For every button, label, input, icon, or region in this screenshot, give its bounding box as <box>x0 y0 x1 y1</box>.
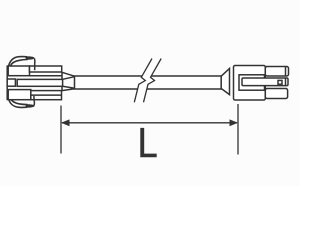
connector P2 middle blade terminal <box>242 78 288 86</box>
connector P1 body top cavity rectangle <box>8 66 29 76</box>
connector P2 cable entry taper (trapezoid) <box>221 69 229 95</box>
dimension label L <box>140 128 156 157</box>
connector P1 latch spring bottom arc tip claw <box>26 104 35 107</box>
connector P1 latch spring top arc <box>8 57 27 68</box>
cable break line (left bolt) <box>134 59 152 103</box>
connector P2 bottom tab terminal <box>265 89 287 99</box>
wire crimp wedge from P1 top terminal to cable <box>62 72 75 79</box>
connector P1 middle terminal bar <box>17 79 62 86</box>
connector P1 body bottom cavity rectangle <box>8 90 31 100</box>
wire crimp wedge from P1 bottom terminal to cable <box>62 86 75 90</box>
connector P2 housing body <box>234 66 266 101</box>
connector P1 latch catch post bottom <box>33 96 36 105</box>
connector P1 latch spring bottom arc <box>8 97 27 107</box>
dimension line with arrows <box>61 119 238 126</box>
cable break symbol white gap mask <box>134 59 161 103</box>
connector P1 latch catch post top <box>34 59 36 71</box>
connector P2 inner cavity frame <box>239 75 265 90</box>
connector P2 blade tip detail square <box>278 80 282 84</box>
cable break line (right bolt) <box>144 59 162 103</box>
cable W1 (two parallel lines, left end cap at connector P1, right end at connector P2) <box>75 76 222 89</box>
connector P2 top tab terminal <box>265 67 288 77</box>
dimension extension line right <box>237 104 239 155</box>
connector P1 body left wall <box>6 65 8 100</box>
connector P1 top terminal bar <box>30 66 62 76</box>
connector P1 latch spring top arc tip claw <box>26 56 35 59</box>
dimension extension line left <box>60 106 62 154</box>
connector P1 bottom terminal bar <box>31 91 62 100</box>
connector P1 seal small square <box>7 79 15 86</box>
